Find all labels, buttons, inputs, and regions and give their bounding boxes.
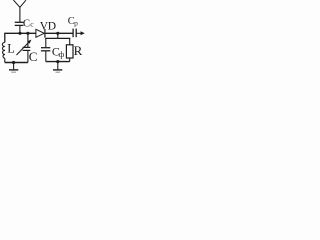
svg-text:p: p — [74, 19, 78, 28]
svg-text:R: R — [74, 43, 83, 58]
svg-text:ф: ф — [59, 49, 65, 59]
svg-text:C: C — [23, 18, 30, 29]
svg-text:VD: VD — [40, 20, 56, 32]
svg-text:L: L — [7, 42, 15, 56]
svg-text:C: C — [29, 49, 38, 64]
